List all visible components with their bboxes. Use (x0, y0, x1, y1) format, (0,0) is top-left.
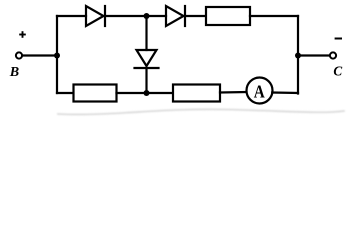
resistor R1 (top) (206, 7, 250, 25)
ammeter A (247, 78, 273, 104)
wire: right rail to terminal C (298, 54, 330, 56)
minus label at terminal C (336, 38, 341, 40)
node: junction on left rail (54, 53, 60, 59)
wire: middle branch lower (145, 68, 147, 93)
wire: right rail (vertical) (297, 16, 299, 94)
diode D3 (points down) (137, 50, 157, 66)
svg-text:B: B (9, 65, 19, 80)
resistor R3 (bottom middle) (173, 85, 220, 102)
resistor R2 (bottom left) (74, 85, 117, 102)
diode D1 (points right) (86, 6, 104, 26)
wire: top rail segment 1 (57, 15, 86, 17)
scan smudge artifact below bottom rail (58, 109, 344, 114)
plus label at terminal B (19, 31, 26, 38)
svg-text:A: A (254, 81, 265, 101)
wire: bottom rail segment 2 (117, 92, 174, 94)
wire: middle branch upper (145, 16, 147, 50)
wire: bottom rail segment 1 (57, 92, 74, 94)
node: top junction to middle diode (144, 13, 150, 19)
wire: terminal B to left rail (22, 54, 57, 56)
node: junction on right rail (295, 53, 301, 59)
wire: top rail segment 4 (250, 15, 298, 17)
wire: left rail (vertical) (56, 16, 58, 93)
diode D2 (points right) (166, 6, 184, 26)
wire: top rail segment 3 (185, 15, 206, 17)
svg-text:C: C (333, 65, 342, 80)
terminal B (open circle) (16, 52, 22, 58)
wire: bottom rail segment 4 (272, 91, 298, 94)
terminal C (open circle) (330, 52, 336, 58)
node: bottom junction of middle diode (144, 90, 150, 96)
wire: top rail segment 2 (105, 15, 166, 17)
wire: bottom rail segment 3 (220, 91, 247, 94)
